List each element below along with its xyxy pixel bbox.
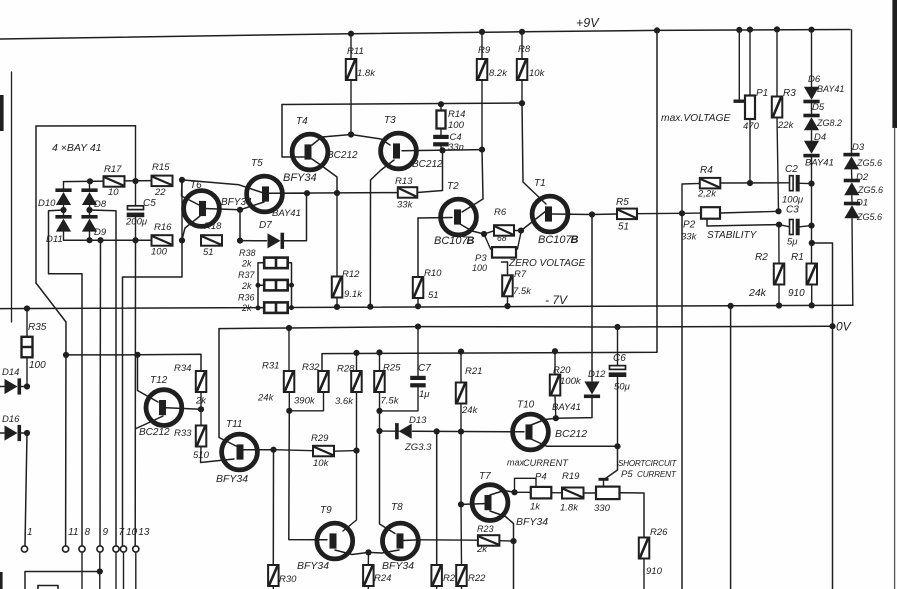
node R20-D12 junction (553, 415, 559, 421)
node P2 label (681, 220, 698, 243)
node R6-right junction (518, 228, 524, 234)
wire D13 to T10 base (413, 430, 525, 433)
node R15-right junction (179, 177, 185, 183)
svg-text:T4: T4 (296, 116, 308, 127)
wire D4 to R1 chain (811, 157, 813, 263)
svg-text:10k: 10k (529, 68, 546, 79)
diode D13 (380, 423, 412, 439)
node D4 label (805, 132, 834, 169)
node corner junction (809, 240, 815, 246)
svg-text:R30: R30 (279, 574, 297, 585)
node R21 label (461, 366, 482, 416)
node R5 label (616, 197, 629, 233)
svg-text:R33: R33 (174, 428, 192, 439)
node T7-base junction (458, 501, 464, 507)
node T12-feed junction (134, 352, 140, 358)
node R25-C7 junction (376, 408, 382, 414)
resistor R19 (562, 488, 596, 499)
node R6-left junction (481, 231, 487, 237)
svg-text:33k: 33k (397, 200, 414, 211)
svg-text:7.5k: 7.5k (513, 286, 532, 297)
diode D12 (556, 382, 600, 419)
node D9 label (94, 227, 107, 238)
node -7V label (545, 293, 568, 307)
node R16-right junction (179, 237, 185, 243)
svg-text:BC212: BC212 (555, 428, 587, 440)
node R1 label (788, 252, 805, 299)
svg-text:CURRENT: CURRENT (523, 458, 569, 468)
node R15 label (152, 162, 170, 198)
node T4-emitter junction (334, 190, 340, 196)
node R35 label (28, 322, 47, 371)
svg-text:ZG8.2: ZG8.2 (816, 118, 842, 128)
resistor R6 (494, 225, 514, 236)
node R16 label (151, 222, 172, 258)
node R24 label (374, 573, 391, 584)
node P1 label (743, 88, 768, 132)
wire left-edge mark (0, 95, 4, 131)
svg-text:R29: R29 (311, 433, 329, 444)
node T3coll-R9 junction (479, 147, 485, 153)
resistor R32 (289, 371, 328, 411)
wire R6 ends (484, 231, 521, 235)
svg-text:CURRENT: CURRENT (637, 470, 677, 479)
node C2 label (782, 164, 804, 206)
svg-text:2k: 2k (195, 396, 207, 407)
node R25 label (381, 363, 402, 407)
svg-text:D8: D8 (94, 199, 107, 210)
wire T4 base feed (282, 105, 304, 158)
svg-text:D14: D14 (2, 367, 19, 378)
svg-text:T1: T1 (534, 178, 546, 189)
transistor T11 (222, 434, 258, 470)
resistor R26 (639, 538, 650, 589)
node R8 rail dot (519, 29, 525, 35)
node R4 label (697, 165, 717, 200)
wire bridge bottom line (64, 239, 152, 241)
node x657 rail dot (654, 27, 660, 33)
wire D13 to T8 base (380, 431, 396, 534)
transistor T6 (184, 191, 220, 227)
diode D14 (0, 378, 27, 394)
wire R38-group left bus (258, 263, 264, 308)
wire x182 vertical (123, 180, 183, 546)
svg-text:R28: R28 (337, 364, 355, 375)
svg-text:T10: T10 (517, 400, 535, 411)
node x370 rail dot (367, 304, 373, 310)
node right-bus junctions (289, 283, 294, 311)
potentiometer P4 (515, 487, 563, 499)
transistor T2 (441, 199, 477, 235)
svg-text:10k: 10k (313, 458, 330, 469)
svg-text:R26: R26 (650, 527, 668, 538)
svg-text:R35: R35 (28, 322, 47, 333)
node P3 label (472, 253, 487, 273)
wire R27 drop (436, 431, 438, 565)
node R17 label (104, 164, 122, 198)
svg-text:7.5k: 7.5k (381, 396, 400, 407)
svg-text:R14: R14 (448, 109, 465, 120)
svg-text:D9: D9 (94, 227, 107, 238)
node R32 label (294, 362, 320, 407)
svg-text:R4: R4 (700, 165, 713, 176)
svg-text:510: 510 (193, 450, 210, 461)
transistor T1 (532, 196, 568, 232)
resistor R30 (268, 565, 279, 589)
svg-text:D10: D10 (38, 198, 56, 209)
wire winding-box left (35, 126, 37, 283)
svg-text:9: 9 (103, 527, 109, 538)
svg-text:51: 51 (428, 290, 439, 301)
node bridge-top junction C5 (132, 178, 138, 184)
capacitor C5 (127, 126, 145, 241)
svg-text:D5: D5 (812, 102, 825, 113)
wire D8-D9 node to terminal 7 (90, 210, 117, 546)
wire T6T5 node drop (239, 210, 241, 241)
node R12 label (342, 269, 363, 300)
diode D5 (803, 103, 819, 130)
wire x370 drop (369, 193, 371, 307)
node x730 rail dot (728, 303, 734, 309)
wire T4 emitter (312, 159, 337, 193)
svg-text:R20: R20 (553, 365, 571, 376)
resistor R33 (196, 409, 234, 462)
capacitor C2 (790, 175, 812, 192)
wire bottom-left link (25, 572, 100, 589)
node R27 label (443, 573, 461, 584)
node D16 junction (24, 430, 30, 436)
wire T6 emitter (182, 216, 200, 240)
svg-text:2,2k: 2,2k (697, 189, 717, 200)
node P1 wiper rail dot (736, 27, 742, 33)
node R4-P1 junction (747, 180, 753, 186)
wire bridge top line (64, 181, 152, 182)
wire C6 drop (617, 327, 619, 366)
svg-text:R24: R24 (374, 573, 391, 584)
resistor R27 (431, 565, 442, 589)
svg-text:C7: C7 (418, 363, 431, 374)
resistor R24 (363, 565, 374, 589)
wire T10 collector (531, 418, 556, 425)
node R22 label (468, 573, 486, 584)
svg-text:D1: D1 (856, 198, 868, 209)
wire T7 emitter (490, 511, 514, 589)
svg-text:D13: D13 (409, 415, 427, 426)
svg-text:390k: 390k (294, 396, 316, 407)
node R14 label (448, 109, 465, 131)
node T11-out junction (270, 447, 276, 453)
node T2 label (434, 181, 475, 247)
svg-text:1μ: 1μ (419, 389, 430, 400)
wire below terminal 10 (123, 553, 125, 589)
svg-text:22k: 22k (777, 120, 795, 131)
wire P4 tap (515, 478, 537, 492)
resistor R38 (264, 258, 288, 269)
svg-text:BFY34: BFY34 (216, 473, 248, 485)
wire T11 out (243, 449, 274, 451)
wire T8 emitter (369, 550, 400, 553)
svg-text:BC212: BC212 (139, 427, 170, 438)
node D6 rail dot (808, 27, 814, 33)
diode D2 (844, 170, 860, 195)
node P4 label (530, 472, 547, 513)
node R36 label (238, 293, 255, 314)
node D3 label (852, 142, 882, 168)
svg-text:R15: R15 (152, 162, 170, 173)
svg-text:R11: R11 (347, 46, 364, 57)
resistor R34 (196, 371, 207, 409)
resistor R3 (772, 29, 783, 211)
diode D7 (240, 233, 284, 249)
node D13-left junction (376, 428, 382, 434)
resistor R7 (502, 275, 513, 306)
svg-text:ZG3.3: ZG3.3 (404, 442, 432, 453)
wire T7 below to R22 (460, 504, 463, 565)
svg-text:BAY41: BAY41 (272, 208, 301, 219)
resistor R20 (550, 351, 561, 418)
wire T6 collector (204, 209, 240, 210)
svg-text:33k: 33k (681, 232, 698, 243)
diode D3 (843, 153, 859, 170)
node T9T8-em junction (365, 549, 371, 555)
wire x682 drop (681, 213, 683, 589)
wire x592 feedback drop (591, 215, 593, 382)
svg-text:2k: 2k (241, 281, 252, 291)
node D7-left junction (237, 238, 243, 244)
wire T2 base (418, 217, 452, 220)
wire T1 emitter (551, 213, 592, 216)
wire T11 collector top (219, 329, 236, 446)
wire D1 to -7V rail (851, 219, 854, 306)
node C4 label (448, 132, 464, 153)
wire right-edge bar (892, 0, 897, 128)
resistor R35 (22, 309, 33, 387)
wire T5 collector (268, 192, 307, 194)
wire R31 from 0V (288, 328, 290, 371)
svg-text:910: 910 (788, 288, 805, 299)
wire T3 top link (351, 135, 390, 146)
wire D3 chain (851, 30, 853, 153)
svg-text:B: B (467, 235, 475, 247)
node C3-right junction (808, 223, 814, 229)
node R7 label (513, 269, 532, 297)
svg-text:STABILITY: STABILITY (707, 230, 758, 241)
svg-text:5μ: 5μ (787, 237, 798, 248)
node max CURRENT label (507, 458, 569, 469)
wire C5 to terminal 13 (134, 240, 136, 545)
node D14 junction (24, 383, 30, 389)
diode D8 (81, 181, 97, 205)
node R3 rail dot (774, 26, 780, 32)
svg-text:51: 51 (203, 247, 214, 258)
node R31 label (257, 361, 279, 404)
resistor R18 (201, 235, 222, 246)
svg-text:T2: T2 (447, 181, 459, 192)
resistor R5 (592, 209, 682, 220)
svg-text:R1: R1 (791, 252, 804, 263)
wire T10em to P5 tap (604, 446, 618, 479)
node R5-right junction (679, 210, 685, 216)
svg-text:68: 68 (497, 233, 507, 243)
svg-text:R7: R7 (514, 269, 527, 280)
wire R25 to D13 (379, 411, 381, 431)
wire left-edge vertical (11, 72, 13, 322)
node D14 label (2, 367, 19, 378)
wire left-bottom mark (0, 572, 3, 589)
svg-text:R37: R37 (238, 270, 256, 280)
diode D6 (803, 87, 819, 104)
node R35 rail dot (24, 305, 30, 311)
wire R34 feed (138, 354, 202, 371)
node T11 label (216, 419, 248, 485)
diode D1 (844, 196, 860, 219)
wire T2 collector riser (462, 150, 483, 212)
svg-text:24k: 24k (257, 393, 275, 404)
svg-text:ZG5.6: ZG5.6 (856, 158, 882, 168)
svg-text:2k: 2k (476, 544, 488, 555)
svg-text:D3: D3 (852, 142, 865, 153)
svg-text:22: 22 (154, 187, 166, 198)
node maxV junction R28 (353, 350, 359, 356)
diode D11 (55, 215, 71, 240)
svg-text:R2: R2 (755, 252, 768, 263)
node C6 0V dot (614, 324, 620, 330)
node T4 label (296, 116, 358, 161)
node terminal 9 pin (97, 527, 109, 552)
transistor T10 (513, 414, 549, 450)
wire P5 tap (599, 478, 609, 487)
resistor R8 (517, 32, 528, 103)
wire box diagonal to terminal 11 (36, 283, 66, 546)
node R29 label (311, 433, 330, 469)
svg-text:R23: R23 (477, 524, 494, 534)
wire T1 collector riser (522, 103, 546, 204)
node 0V label (836, 320, 852, 334)
svg-text:R6: R6 (494, 207, 507, 218)
svg-text:ZG5.6: ZG5.6 (856, 212, 882, 222)
node D2 label (856, 172, 883, 195)
resistor R4 (682, 178, 790, 213)
resistor R21 (456, 352, 467, 432)
svg-text:R38: R38 (239, 248, 256, 258)
svg-text:T11: T11 (226, 419, 243, 430)
node R20 label (553, 365, 582, 387)
svg-text:R10: R10 (424, 268, 442, 279)
svg-text:P5: P5 (621, 469, 633, 480)
resistor R31 (284, 371, 295, 411)
node T10 label (517, 400, 587, 441)
svg-text:R21: R21 (465, 366, 482, 377)
capacitor C6 (609, 366, 627, 447)
node R9 rail dot (479, 29, 485, 35)
node D10-D11 junction (60, 206, 66, 216)
resistor R12 (332, 193, 343, 307)
transistor T5 (247, 176, 283, 212)
wire P2 wiper (707, 219, 779, 226)
diode D9 (81, 215, 97, 240)
wire below terminal 8 (81, 553, 83, 589)
svg-text:ZERO VOLTAGE: ZERO VOLTAGE (508, 258, 586, 269)
node R29-right junction (353, 448, 359, 454)
node R10 label (424, 268, 442, 301)
wire maxV riser x657 (322, 30, 657, 371)
wire below terminal 13 (135, 553, 137, 589)
node R11-bottom junction (348, 131, 354, 137)
svg-text:2k: 2k (241, 259, 252, 269)
svg-text:R5: R5 (616, 197, 629, 208)
node D7 label (259, 208, 301, 231)
svg-text:BFY34: BFY34 (382, 560, 414, 572)
wire T12 collector (166, 408, 201, 410)
svg-text:1.8k: 1.8k (357, 68, 376, 79)
wire bottom-left box corner (38, 586, 58, 589)
svg-text:+9V: +9V (576, 16, 600, 30)
svg-text:1.8k: 1.8k (560, 503, 579, 514)
svg-text:T12: T12 (150, 375, 168, 386)
node R19 label (560, 471, 580, 514)
svg-text:D12: D12 (588, 369, 606, 380)
wire R38-group right bus (288, 263, 292, 308)
node R2 label (748, 252, 768, 299)
resistor R17 (104, 176, 125, 187)
node R30 label (279, 574, 297, 585)
transistor T9 (317, 523, 353, 559)
node T6 label (190, 180, 252, 208)
node R38 label (239, 248, 256, 269)
svg-text:24k: 24k (748, 287, 767, 299)
svg-text:100: 100 (448, 120, 465, 131)
node left-bus junctions (256, 283, 261, 311)
wire y104 line (282, 103, 522, 105)
svg-text:3.6k: 3.6k (335, 396, 354, 407)
resistor R23 (420, 535, 514, 546)
node R3 label (777, 88, 796, 131)
svg-text:max: max (507, 458, 525, 468)
node R6 label (494, 207, 507, 243)
svg-text:R8: R8 (518, 44, 531, 55)
node T12-coll junction (198, 406, 204, 412)
wire P3 wiper (502, 262, 508, 276)
wire 0V rail (219, 326, 833, 328)
node T5-collector junction (304, 190, 310, 196)
svg-text:P2: P2 (683, 220, 696, 231)
resistor R16 (152, 235, 173, 246)
transistor T12 (146, 390, 182, 426)
node bottom junction t9 (97, 237, 103, 243)
svg-text:C3: C3 (786, 205, 799, 216)
svg-text:max.VOLTAGE: max.VOLTAGE (661, 113, 731, 124)
node ZERO VOLTAGE label (508, 258, 586, 269)
wire D10-D11 node to terminal 8 (49, 210, 83, 546)
node R18 label (203, 221, 222, 258)
node T1-R5 junction (589, 211, 595, 217)
svg-text:C2: C2 (785, 164, 798, 175)
wire corner to x832 (812, 243, 833, 589)
svg-text:R16: R16 (154, 222, 172, 233)
wire T2 emitter (460, 224, 484, 234)
node maxV junction R25 (376, 349, 382, 355)
svg-text:1: 1 (27, 527, 33, 538)
resistor R37 (264, 280, 288, 291)
node D13line junction R21 (458, 429, 464, 435)
svg-text:33n: 33n (448, 142, 464, 153)
node D8-D9 junction (86, 206, 92, 216)
wire T3 emitter (371, 160, 395, 193)
svg-text:BAY41: BAY41 (552, 402, 581, 413)
node maxV junction R20 (552, 348, 558, 354)
node 4xBAY41 label (52, 142, 102, 154)
resistor R2 (774, 225, 785, 306)
